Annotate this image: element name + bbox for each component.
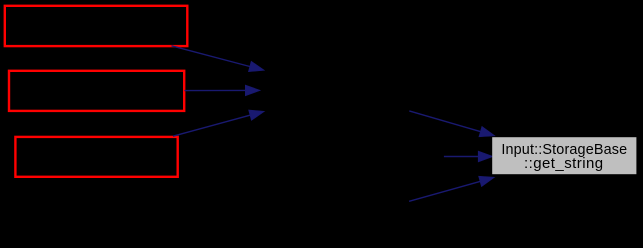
node Input::StorageBase::get_string (current function, grey fill) <box>492 137 636 174</box>
edge hidden node B -> get_string <box>444 151 493 162</box>
edge caller1 -> hidden node A <box>172 46 265 72</box>
edge hidden node C -> get_string <box>409 176 494 201</box>
svg-text:::get_string: ::get_string <box>524 155 604 172</box>
caller node 2 (truncated, label hidden) <box>9 71 184 111</box>
edge caller3 -> hidden node A <box>173 110 265 136</box>
edge hidden node A -> get_string <box>409 111 495 137</box>
edge caller2 -> hidden node A <box>185 85 261 96</box>
caller node 3 (truncated, label hidden) <box>15 137 177 177</box>
caller node 1 (truncated, label hidden) <box>5 6 188 46</box>
